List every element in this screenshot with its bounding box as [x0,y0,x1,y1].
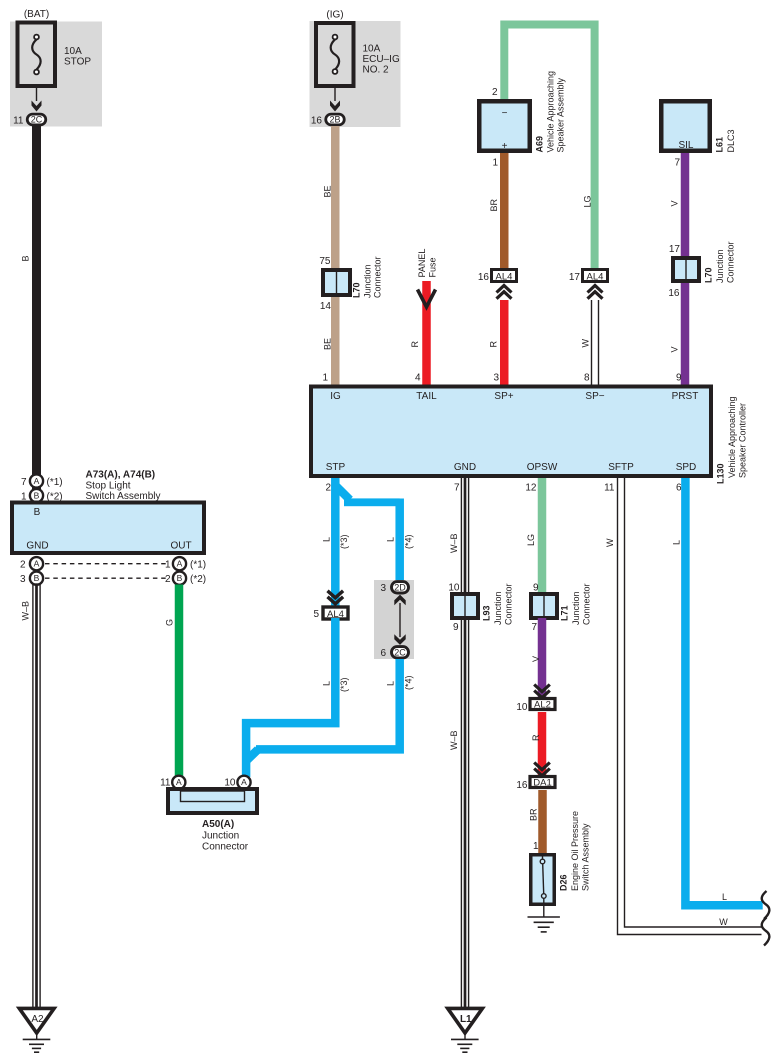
ground triangle L1 [448,1008,483,1033]
wire L branch *4 vertical to 2D [395,499,404,582]
svg-text:V: V [670,346,680,352]
svg-text:1: 1 [492,158,498,169]
svg-text:W: W [605,538,615,547]
ground triangle A2 [19,1008,54,1033]
svg-text:A: A [177,559,183,569]
svg-text:W: W [581,339,591,348]
svg-text:G: G [165,619,175,626]
wire R (red) AL4 to SP+ [500,300,509,386]
wire L branch horizontal [344,498,400,506]
svg-text:2B: 2B [329,115,340,125]
svg-text:W: W [719,917,728,927]
arrow into 2C [32,101,42,112]
svg-text:3: 3 [20,574,26,585]
svg-text:(BAT): (BAT) [24,9,49,20]
fuse F1 10A STOP body [18,23,56,87]
fuse block background (IG) [310,21,401,127]
svg-text:LG: LG [583,195,593,207]
svg-text:NO. 2: NO. 2 [363,65,390,76]
svg-text:BR: BR [489,198,499,211]
svg-text:Speaker Controller: Speaker Controller [738,403,748,478]
break symbol W [762,918,770,946]
wire fuse F1 to connector 2C [36,88,38,101]
svg-text:L: L [722,892,727,902]
wire R (red) PANEL fuse to TAIL [422,281,431,386]
connector DA1 (pin 16) [530,777,555,788]
svg-text:L1: L1 [460,1014,472,1025]
svg-text:10: 10 [224,778,236,789]
svg-text:Vehicle Approaching: Vehicle Approaching [546,71,556,153]
svg-text:PANEL: PANEL [417,249,427,278]
svg-text:D26: D26 [559,874,569,891]
svg-text:V: V [670,200,680,206]
svg-text:2C: 2C [31,115,43,125]
fuse F1 element [32,39,40,69]
svg-text:Fuse: Fuse [428,257,438,277]
svg-text:DLC3: DLC3 [726,129,736,152]
svg-text:BR: BR [529,808,539,821]
svg-text:TAIL: TAIL [416,391,437,402]
svg-text:2: 2 [325,483,331,494]
connector block 2D/2C background [374,580,414,659]
fuse F2 10A ECU-IG NO.2 body [316,23,354,86]
svg-text:11: 11 [160,778,171,789]
svg-text:Switch Assembly: Switch Assembly [581,823,591,891]
wire G (green) OUT to A50 pin11 [175,585,184,777]
svg-text:B: B [177,573,183,583]
wire LG (light green) A69 pin2 loop to AL4 [504,25,594,270]
wire W (white) SFTP to right edge [618,478,762,935]
svg-text:Junction: Junction [202,831,239,842]
svg-text:LG: LG [526,534,536,546]
junction connector L70 (left) [323,270,350,295]
svg-text:W–B: W–B [21,601,31,621]
svg-text:Connector: Connector [582,583,592,625]
svg-text:10A: 10A [64,46,82,57]
svg-text:17: 17 [569,272,581,283]
svg-text:IG: IG [330,391,341,402]
svg-text:A: A [241,777,247,787]
svg-text:STP: STP [326,462,346,473]
junction connector A50(A) pins [172,776,185,789]
svg-text:AL4: AL4 [496,271,513,282]
arrow into DA1 [534,763,550,776]
svg-text:2: 2 [492,87,498,98]
svg-text:GND: GND [26,541,48,552]
svg-text:BE: BE [323,338,333,350]
oil pressure switch D26 [531,855,555,905]
ground symbol L1 [464,1033,466,1040]
arrow into AL4 [497,286,512,299]
svg-text:W–B: W–B [449,730,459,750]
wire BR (brown) A69 pin1 to AL4 [500,153,509,270]
svg-text:Speaker Assembly: Speaker Assembly [556,77,566,152]
svg-text:7: 7 [21,477,27,488]
svg-text:3: 3 [493,373,499,384]
svg-text:L: L [672,540,682,545]
svg-text:11: 11 [13,116,24,127]
svg-text:2C: 2C [394,648,406,658]
link arrow 2D to 2C [399,603,401,637]
svg-text:PRST: PRST [672,391,699,402]
svg-text:L93: L93 [482,605,492,621]
svg-text:L: L [322,537,332,542]
svg-text:2: 2 [20,560,26,571]
svg-text:Connector: Connector [373,256,383,298]
svg-text:1: 1 [165,560,171,571]
arrow into AL4 [328,591,344,604]
speaker assembly A69 [479,101,530,151]
connector AL4 (pin 5) [323,607,348,619]
svg-text:9: 9 [453,622,459,633]
svg-text:Engine Oil Pressure: Engine Oil Pressure [570,811,580,891]
svg-text:10A: 10A [363,44,381,55]
svg-text:L: L [386,537,396,542]
svg-text:7: 7 [531,622,537,633]
junction connector L70 (right) [673,258,699,281]
svg-text:10: 10 [448,583,460,594]
svg-text:17: 17 [669,244,681,255]
dashed link A-A [45,563,167,565]
svg-text:STOP: STOP [64,57,91,68]
svg-text:SP−: SP− [585,391,604,402]
svg-text:Junction: Junction [493,591,503,625]
svg-text:Stop Light: Stop Light [86,481,131,492]
svg-text:B: B [34,573,40,583]
connector AL4 (pin 17) [583,270,608,282]
svg-text:75: 75 [319,256,331,267]
connector AL2 (pin 10) [530,699,555,710]
svg-text:12: 12 [525,483,537,494]
wire L (blue) 2C down to A50 pin10 [256,659,400,749]
svg-text:B: B [21,255,31,261]
svg-text:W–B: W–B [449,533,459,553]
svg-text:7: 7 [454,483,460,494]
svg-text:(*1): (*1) [190,560,206,571]
ground symbol A2 [36,1033,38,1040]
svg-text:B: B [34,507,41,518]
svg-text:A: A [34,559,40,569]
svg-text:SP+: SP+ [494,391,513,402]
switch A73/A74 box [12,503,204,554]
svg-text:L: L [322,681,332,686]
svg-text:A: A [34,476,40,486]
svg-text:16: 16 [516,780,528,791]
svg-text:16: 16 [668,288,680,299]
wire BR (brown) DA1 to D26 [538,790,547,855]
svg-text:16: 16 [311,116,323,127]
svg-text:(*4): (*4) [404,534,414,549]
svg-text:A69: A69 [535,136,545,153]
svg-text:B: B [34,491,40,501]
connector 2B [326,114,345,125]
svg-text:L: L [386,681,396,686]
svg-text:GND: GND [454,462,476,473]
connector 2C [27,114,46,125]
svg-text:Junction: Junction [363,264,373,298]
svg-text:L70: L70 [352,282,362,298]
connector 2C [392,647,409,658]
svg-text:2D: 2D [394,583,406,593]
wire L (blue) SPD to right edge [685,478,762,905]
svg-text:8: 8 [584,373,590,384]
svg-text:R: R [489,341,499,348]
svg-text:DA1: DA1 [533,778,551,789]
wire W (white) AL4 to SP- [591,300,593,386]
svg-text:9: 9 [676,373,682,384]
wire fuse F2 to connector 2B [334,87,336,102]
svg-text:14: 14 [320,301,332,312]
dashed link B-B [45,577,167,579]
arrow into 2B [330,101,340,112]
svg-text:L130: L130 [716,463,726,484]
connector 2D [392,582,409,593]
svg-text:9: 9 [533,583,539,594]
svg-text:L71: L71 [560,605,570,621]
svg-text:L61: L61 [715,137,725,153]
svg-text:7: 7 [674,158,680,169]
arrow from PANEL fuse [418,290,436,308]
svg-text:SFTP: SFTP [608,462,634,473]
svg-text:1: 1 [322,373,328,384]
wire L branch fork diagonal [337,487,350,500]
arrow into AL4 [588,286,603,299]
svg-text:OUT: OUT [170,541,191,552]
junction connector A50(A) box [168,789,257,813]
svg-text:5: 5 [313,609,319,620]
svg-text:AL2: AL2 [534,700,551,711]
wire W-B GND to ground L1 [460,478,462,1009]
svg-text:(*2): (*2) [190,574,206,585]
wire V (violet) L71 to AL2 [538,618,547,699]
svg-text:2: 2 [165,574,171,585]
wire V (violet) L61 to L70 to PRST [681,153,690,386]
svg-text:OPSW: OPSW [527,462,558,473]
svg-text:A2: A2 [31,1014,44,1025]
svg-text:(IG): (IG) [326,10,343,21]
wire W-B (left) GND to ground A2 [32,583,34,1008]
svg-text:Connector: Connector [202,842,249,853]
arrow into AL2 [534,685,550,698]
svg-text:(*3): (*3) [339,677,349,692]
svg-text:SPD: SPD [676,462,697,473]
break symbol L [762,891,770,919]
svg-text:16: 16 [478,272,490,283]
wire R (red) AL2 to DA1 [538,712,547,777]
svg-text:6: 6 [380,648,386,659]
svg-text:A: A [176,777,182,787]
svg-text:Connector: Connector [504,583,514,625]
svg-text:L70: L70 [704,267,714,283]
svg-text:ECU–IG: ECU–IG [363,54,400,65]
pins below switch [30,557,43,570]
svg-text:(*4): (*4) [404,675,414,690]
svg-text:Vehicle Approaching: Vehicle Approaching [727,396,737,478]
svg-text:+: + [502,141,508,152]
svg-text:(*3): (*3) [339,534,349,549]
svg-text:BE: BE [323,185,333,197]
fuse F2 element [331,39,339,69]
svg-text:A73(A), A74(B): A73(A), A74(B) [86,470,156,481]
svg-text:Switch Assembly: Switch Assembly [86,491,161,502]
svg-text:R: R [410,341,420,348]
svg-text:SIL: SIL [678,140,693,151]
svg-text:R: R [531,734,541,741]
svg-text:1: 1 [533,841,539,852]
stop light switch pins above [30,474,43,487]
connector AL4 (pin 16) [492,270,517,282]
svg-text:11: 11 [604,483,615,494]
svg-text:Connector: Connector [726,241,736,283]
svg-text:AL4: AL4 [587,271,604,282]
svg-text:4: 4 [415,373,421,384]
svg-text:(*1): (*1) [47,477,63,488]
wire L (blue) AL4 down to A50 pin10 [246,618,335,777]
svg-text:A50(A): A50(A) [202,819,234,830]
svg-text:10: 10 [516,702,528,713]
wire L (blue) STP main branch *3 [331,478,340,608]
junction connector L71 [531,594,557,618]
junction connector L93 [452,594,478,618]
svg-text:−: − [502,108,508,119]
DLC3 connector L61 [661,101,710,151]
svg-text:Junction: Junction [715,249,725,283]
svg-text:3: 3 [380,583,386,594]
fuse block background (BAT) [10,22,102,127]
svg-text:Junction: Junction [571,591,581,625]
svg-text:6: 6 [676,483,682,494]
controller L130 box [311,387,711,477]
wire LG (light green) OPSW to L71 [538,478,547,595]
svg-text:V: V [531,656,541,662]
wire BE (beige) 2B to L70 to IG [331,126,340,386]
ground symbol D26 [528,916,560,918]
wire B (black) 2C to stop light switch [32,126,41,502]
